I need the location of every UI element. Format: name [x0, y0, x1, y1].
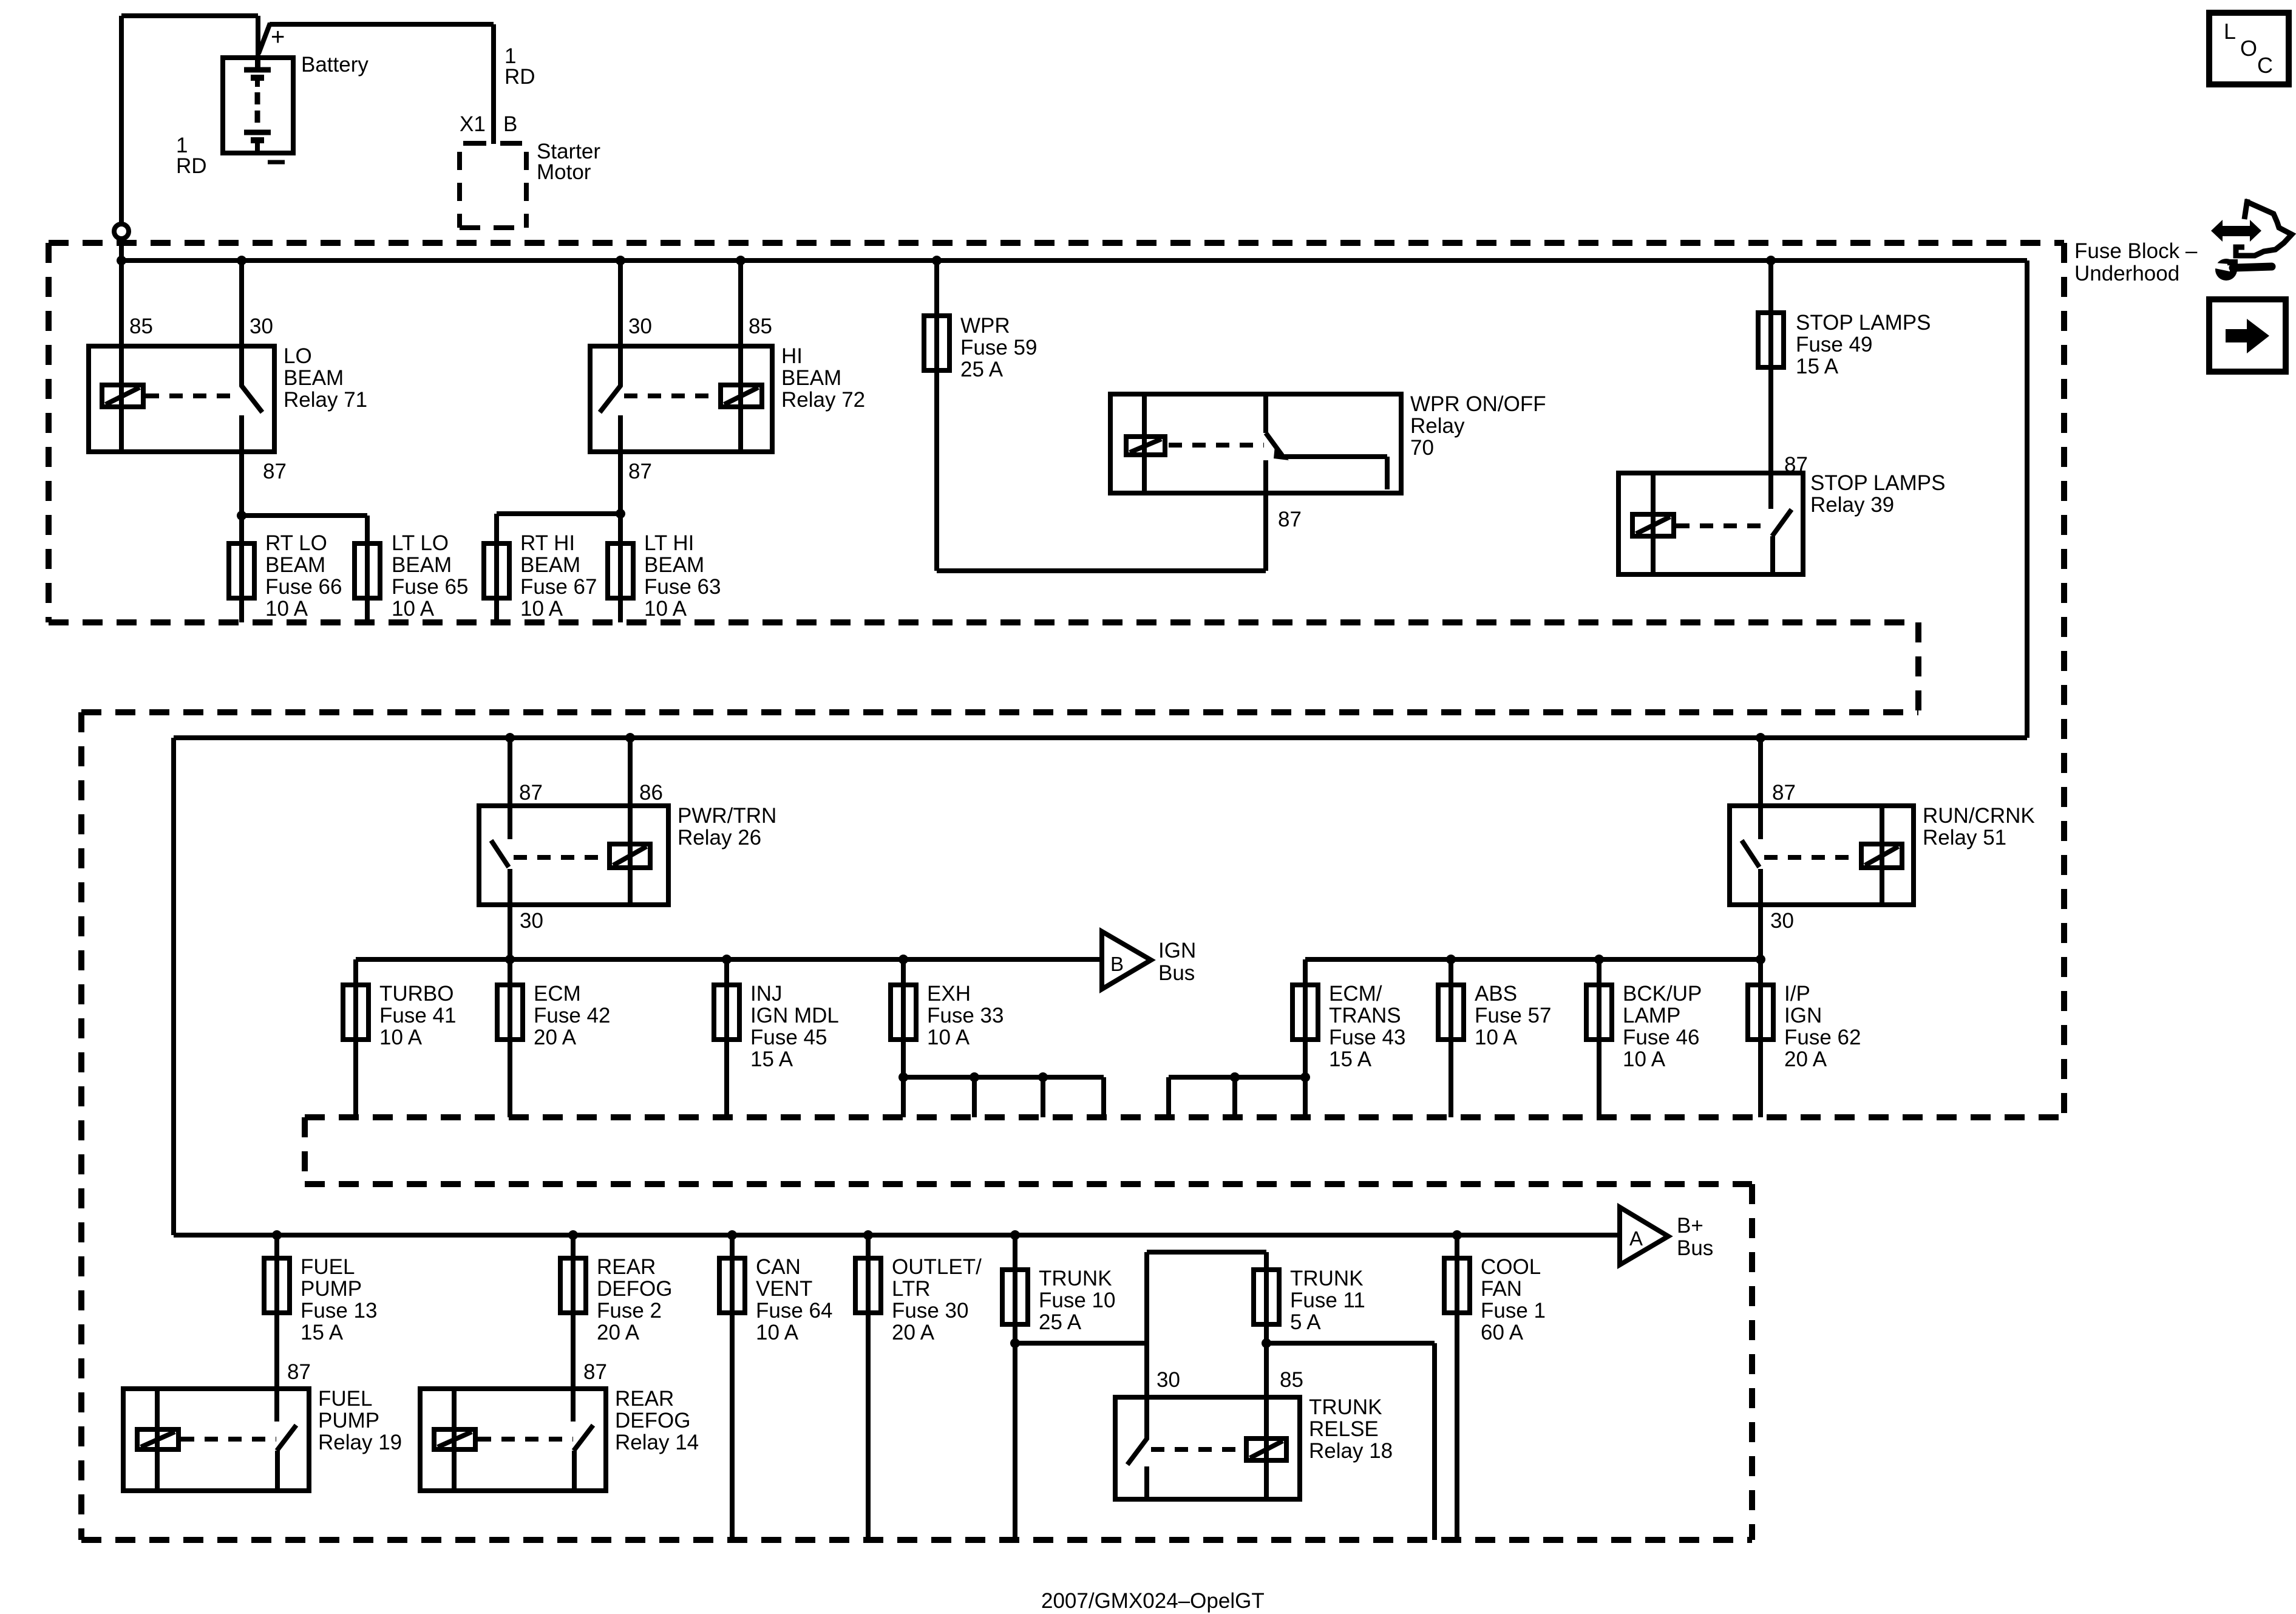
- svg-text:Fuse 30: Fuse 30: [892, 1299, 968, 1323]
- svg-text:60 A: 60 A: [1481, 1321, 1524, 1344]
- svg-text:Fuse 11: Fuse 11: [1290, 1289, 1365, 1312]
- svg-text:10 A: 10 A: [927, 1026, 970, 1049]
- svg-text:OUTLET/: OUTLET/: [892, 1255, 982, 1279]
- wire to fuse45: [724, 959, 729, 985]
- relay K39 STOP LAMPS: [1618, 473, 1803, 574]
- svg-text:Relay 51: Relay 51: [1923, 826, 2006, 850]
- wire bus1 to fuse49: [1768, 260, 1773, 313]
- svg-text:70: 70: [1410, 436, 1434, 460]
- svg-text:PUMP: PUMP: [318, 1409, 379, 1432]
- svg-text:LT LO: LT LO: [392, 531, 449, 555]
- svg-text:Fuse 65: Fuse 65: [392, 575, 468, 599]
- wire fuse33 out: [901, 1040, 906, 1117]
- fuse F41 TURBO: [343, 985, 369, 1040]
- switch blade relay18: [1127, 1438, 1147, 1465]
- wire relay71 87 down: [239, 452, 244, 516]
- svg-text:2007/GMX024–OpelGT: 2007/GMX024–OpelGT: [1041, 1589, 1265, 1613]
- svg-text:10 A: 10 A: [379, 1026, 423, 1049]
- wire to fuse67: [497, 511, 620, 516]
- svg-text:FUEL: FUEL: [318, 1387, 372, 1411]
- wire to fuse1: [1455, 1235, 1459, 1258]
- wire pin30 relay51 inside: [1758, 869, 1763, 905]
- svg-text:C: C: [2257, 53, 2273, 78]
- svg-text:TRUNK: TRUNK: [1039, 1267, 1112, 1290]
- svg-text:REAR: REAR: [615, 1387, 674, 1411]
- relay K71 LO BEAM: [89, 260, 274, 452]
- wire into battery +: [256, 16, 260, 70]
- svg-text:Relay 19: Relay 19: [318, 1431, 402, 1454]
- svg-text:Relay: Relay: [1410, 414, 1465, 438]
- wire to fuse46: [1597, 959, 1601, 985]
- svg-text:IGN: IGN: [1784, 1004, 1822, 1027]
- svg-text:INJ: INJ: [750, 982, 783, 1006]
- junction B+/fuse13: [272, 1230, 282, 1240]
- wire to relay70 87: [937, 568, 1266, 573]
- svg-text:ECM: ECM: [534, 982, 581, 1006]
- fuse F64 CAN VENT: [719, 1258, 745, 1313]
- wire to fuse30: [866, 1235, 871, 1258]
- wire fuse2 to relay14: [571, 1313, 576, 1422]
- svg-text:FUEL: FUEL: [301, 1255, 355, 1279]
- fuse block underhood outline: [49, 243, 2064, 1540]
- svg-text:Fuse 63: Fuse 63: [644, 575, 721, 599]
- svg-text:ABS: ABS: [1475, 982, 1517, 1006]
- wire to fuse41: [353, 959, 358, 985]
- svg-text:Fuse 67: Fuse 67: [520, 575, 597, 599]
- svg-text:Relay 26: Relay 26: [678, 826, 761, 850]
- switch blade relay26: [491, 840, 509, 867]
- svg-text:87: 87: [628, 460, 652, 483]
- svg-text:30: 30: [1770, 909, 1794, 933]
- svg-text:30: 30: [628, 315, 652, 338]
- wire fuse57 out: [1449, 1040, 1453, 1117]
- wire right vertical bus1 to bus2: [2025, 260, 2029, 738]
- svg-text:10 A: 10 A: [1475, 1026, 1518, 1049]
- svg-text:STOP LAMPS: STOP LAMPS: [1810, 471, 1945, 495]
- svg-text:15 A: 15 A: [1329, 1047, 1372, 1071]
- svg-text:DEFOG: DEFOG: [597, 1277, 672, 1301]
- svg-text:Fuse 66: Fuse 66: [265, 575, 342, 599]
- relay K19 FUEL PUMP: [123, 1389, 309, 1491]
- svg-text:Fuse Block –: Fuse Block –: [2074, 239, 2198, 263]
- relay K51 RUN/CRNK: [1730, 806, 1914, 905]
- wire fuse63 out: [618, 598, 623, 622]
- wire bridge vertical / relay18 pin30: [1144, 1252, 1149, 1397]
- wire exh stub 2: [1041, 1077, 1045, 1117]
- svg-text:Motor: Motor: [537, 160, 591, 184]
- svg-text:X1: X1: [460, 112, 486, 136]
- wire fuse46 out: [1597, 1040, 1601, 1117]
- svg-text:COOL: COOL: [1481, 1255, 1541, 1279]
- wire battery to node, top: [121, 13, 258, 18]
- relay K26 PWR/TRN: [479, 806, 668, 905]
- svg-text:B: B: [1110, 953, 1124, 975]
- fuse F57 ABS: [1438, 985, 1464, 1040]
- wire bus1 battery feed: [121, 258, 2027, 263]
- relay K70 WPR ON/OFF: [1110, 394, 1401, 493]
- svg-text:Fuse 10: Fuse 10: [1039, 1289, 1115, 1312]
- svg-text:85: 85: [1280, 1368, 1303, 1392]
- switch blade relay72: [600, 385, 621, 412]
- fuse F42 ECM: [497, 985, 523, 1040]
- switch throw contact relay70: [1283, 454, 1387, 459]
- svg-text:10 A: 10 A: [265, 597, 308, 621]
- coil feed relay51: [1880, 806, 1884, 905]
- wire exh sub-bus: [903, 1075, 1104, 1080]
- switch blade relay14: [574, 1425, 593, 1451]
- wire bridge top: [1147, 1250, 1266, 1255]
- wire common relay39: [1770, 536, 1775, 574]
- wire left vertical bus2 to B+ bus: [171, 738, 176, 1235]
- svg-text:Fuse 43: Fuse 43: [1329, 1026, 1405, 1049]
- switch blade relay51: [1742, 840, 1759, 867]
- svg-text:PUMP: PUMP: [301, 1277, 362, 1301]
- svg-text:BEAM: BEAM: [265, 553, 325, 577]
- svg-text:15 A: 15 A: [301, 1321, 344, 1344]
- wire exh stub 3: [1101, 1077, 1106, 1117]
- junction battery/bus1: [117, 256, 126, 265]
- wire node to fuse-block bus: [119, 240, 124, 260]
- wire fuse45 out: [724, 1040, 729, 1117]
- wire exh stub 1: [972, 1077, 977, 1117]
- svg-text:Fuse 13: Fuse 13: [301, 1299, 377, 1323]
- svg-text:20 A: 20 A: [534, 1026, 577, 1049]
- svg-text:PWR/TRN: PWR/TRN: [678, 804, 776, 828]
- junction fuse11 out: [1262, 1338, 1271, 1348]
- svg-text:LT HI: LT HI: [644, 531, 694, 555]
- wire fuse64 out: [730, 1313, 735, 1540]
- relay K14 REAR DEFOG: [420, 1389, 606, 1491]
- svg-text:TURBO: TURBO: [379, 982, 454, 1006]
- coil feed relay39: [1651, 473, 1656, 574]
- icon vehicle with double arrow and wrench: [2211, 199, 2292, 281]
- svg-text:Fuse 57: Fuse 57: [1475, 1004, 1551, 1027]
- junction ign/fuse57: [1446, 955, 1456, 964]
- svg-text:Relay 14: Relay 14: [615, 1431, 699, 1454]
- switch blade relay39: [1772, 509, 1792, 536]
- wire common relay14: [572, 1451, 577, 1491]
- svg-text:LAMP: LAMP: [1623, 1004, 1680, 1027]
- wire pin85 relay18 inside: [1264, 1397, 1269, 1499]
- svg-text:REAR: REAR: [597, 1255, 656, 1279]
- wire B+ bus: [174, 1233, 1618, 1238]
- junction bus1/relay72 pin30: [616, 256, 625, 265]
- svg-text:10 A: 10 A: [756, 1321, 799, 1344]
- svg-text:5 A: 5 A: [1290, 1310, 1321, 1334]
- svg-text:87: 87: [1278, 508, 1302, 531]
- svg-text:BEAM: BEAM: [392, 553, 452, 577]
- wire fuse66 out: [239, 598, 244, 622]
- junction ign/fuse42: [505, 955, 515, 964]
- wire to fuse57: [1449, 959, 1453, 985]
- coil feed relay14: [452, 1389, 457, 1491]
- fuse F62 I/P IGN: [1748, 985, 1773, 1040]
- fuse F10 TRUNK: [1002, 1270, 1028, 1324]
- wire relay70 87 up: [1263, 493, 1268, 571]
- junction ign/fuse33: [898, 955, 908, 964]
- wire common relay18: [1144, 1466, 1149, 1499]
- svg-text:Fuse 42: Fuse 42: [534, 1004, 610, 1027]
- svg-text:RUN/CRNK: RUN/CRNK: [1923, 804, 2035, 828]
- wire relay72 87 down: [618, 452, 623, 514]
- junction ign/fuse62: [1756, 955, 1765, 964]
- junction bus1/relay72 pin85: [736, 256, 746, 265]
- svg-text:85: 85: [749, 315, 772, 338]
- wire pin 30 relay72: [618, 260, 623, 386]
- fuse F1 COOL FAN: [1444, 1258, 1470, 1313]
- fuse F49 STOP LAMPS: [1758, 313, 1784, 367]
- wire pin 85 relay72: [738, 260, 743, 452]
- svg-text:TRUNK: TRUNK: [1290, 1267, 1364, 1290]
- fuse F30 OUTLET/LTR: [855, 1258, 881, 1313]
- wire to fuse42: [508, 959, 512, 985]
- wire fuse59 down: [934, 370, 939, 571]
- wire fuse10 down: [1013, 1343, 1017, 1540]
- wire to fuse64: [730, 1235, 735, 1258]
- svg-text:30: 30: [250, 315, 273, 338]
- wire to fuse65: [242, 513, 367, 518]
- wire fuse11 down: [1432, 1343, 1437, 1540]
- junction fuse10 out: [1010, 1338, 1020, 1348]
- svg-text:TRUNK: TRUNK: [1309, 1395, 1382, 1419]
- wire pin 87 relay72 inside: [618, 415, 623, 452]
- wire to fuse62: [1758, 959, 1763, 985]
- svg-text:A: A: [1629, 1227, 1643, 1250]
- wire diagonal at battery +: [259, 23, 270, 53]
- node: battery splice: [114, 224, 129, 239]
- wire fuse10 out: [1013, 1324, 1017, 1343]
- junction bus1/fuse59: [932, 256, 942, 265]
- wire pin 87 relay26: [508, 738, 512, 839]
- svg-text:20 A: 20 A: [1784, 1047, 1827, 1071]
- junction B+/fuse64: [727, 1230, 737, 1240]
- fuse F13 FUEL PUMP: [264, 1258, 290, 1313]
- svg-text:WPR ON/OFF: WPR ON/OFF: [1410, 392, 1546, 416]
- fuse F63 LT HI BEAM: [608, 543, 633, 598]
- fuse F33 EXH: [891, 985, 916, 1040]
- wire pin 30 relay71: [239, 260, 244, 386]
- wire pin 87 relay39: [1768, 473, 1773, 509]
- svg-text:87: 87: [263, 460, 287, 483]
- wire fuse62 out: [1758, 1040, 1763, 1117]
- junction relay72 87 node: [616, 509, 625, 519]
- wire fuse49 to relay39: [1768, 367, 1773, 473]
- wire fuse1 out: [1455, 1313, 1459, 1540]
- svg-text:Bus: Bus: [1677, 1236, 1713, 1260]
- svg-text:Bus: Bus: [1158, 961, 1195, 985]
- svg-text:RELSE: RELSE: [1309, 1417, 1379, 1441]
- svg-text:Battery: Battery: [301, 53, 369, 77]
- fuse F59 WPR: [924, 316, 949, 370]
- junction ign/fuse46: [1594, 955, 1604, 964]
- svg-text:Fuse 1: Fuse 1: [1481, 1299, 1546, 1323]
- svg-text:BEAM: BEAM: [781, 366, 841, 390]
- wire ecm-trans stub 2: [1232, 1077, 1237, 1117]
- relay K72 HI BEAM: [590, 260, 772, 452]
- fuse F46 BCK/UP LAMP: [1586, 985, 1612, 1040]
- wire pin30 relay26 inside: [508, 869, 512, 905]
- wire fuse41 out: [353, 1040, 358, 1117]
- junction ign/fuse45: [722, 955, 732, 964]
- wire to fuse43: [1303, 959, 1308, 985]
- wire relay26 30 down: [508, 905, 512, 959]
- fuse F11 TRUNK: [1254, 1270, 1279, 1324]
- svg-text:87: 87: [287, 1360, 311, 1384]
- svg-text:WPR: WPR: [960, 314, 1010, 338]
- icon LOC box: [2209, 13, 2289, 84]
- starter motor: [460, 143, 526, 228]
- junction B+/fuse2: [568, 1230, 578, 1240]
- junction bus2/relay51 87: [1756, 733, 1765, 743]
- svg-text:Fuse 64: Fuse 64: [756, 1299, 832, 1323]
- wire pin 87 relay71 inside: [239, 415, 244, 452]
- wire fuse67 out: [494, 598, 499, 622]
- svg-text:30: 30: [1156, 1368, 1180, 1392]
- wire 1 RD right vertical: [491, 24, 496, 144]
- wire relay51 30 down: [1758, 905, 1763, 959]
- wire to fuse13: [274, 1235, 279, 1258]
- wire fuse11 right: [1266, 1341, 1435, 1346]
- svg-text:BEAM: BEAM: [284, 366, 344, 390]
- junction bus1/relay71 pin30: [237, 256, 246, 265]
- svg-text:Fuse 41: Fuse 41: [379, 1004, 456, 1027]
- svg-text:IGN MDL: IGN MDL: [750, 1004, 839, 1027]
- svg-text:10 A: 10 A: [1623, 1047, 1666, 1071]
- junction bus2/relay26 86: [625, 733, 635, 743]
- svg-text:15 A: 15 A: [750, 1047, 793, 1071]
- wire ecm-trans sub-bus: [1169, 1075, 1305, 1080]
- fuse F66 RT LO BEAM: [229, 543, 254, 598]
- fuse F67 RT HI BEAM: [484, 543, 509, 598]
- svg-text:VENT: VENT: [756, 1277, 812, 1301]
- svg-text:86: 86: [639, 781, 663, 805]
- svg-text:Relay 39: Relay 39: [1810, 493, 1894, 517]
- svg-text:Fuse 33: Fuse 33: [927, 1004, 1004, 1027]
- svg-text:TRANS: TRANS: [1329, 1004, 1401, 1027]
- svg-text:+: +: [271, 24, 285, 50]
- svg-text:87: 87: [583, 1360, 607, 1384]
- battery minus sign: [268, 160, 285, 165]
- svg-text:I/P: I/P: [1784, 982, 1810, 1006]
- svg-text:ECM/: ECM/: [1329, 982, 1382, 1006]
- wire pin switch relay70: [1263, 394, 1268, 433]
- svg-text:DEFOG: DEFOG: [615, 1409, 690, 1432]
- wire ign bus left: [356, 957, 1102, 962]
- coil feed relay70: [1142, 394, 1147, 493]
- wire fuse65 out: [365, 598, 370, 622]
- wire fuse30 out: [866, 1313, 871, 1540]
- svg-text:L: L: [2224, 19, 2236, 44]
- junction bus1/fuse49: [1766, 256, 1776, 265]
- wire 1 RD left vertical: [119, 16, 124, 222]
- wire fuse11 out / relay18 pin85: [1264, 1324, 1269, 1397]
- wire to fuse33: [901, 959, 906, 985]
- svg-text:Fuse 2: Fuse 2: [597, 1299, 662, 1323]
- svg-text:RD: RD: [504, 65, 535, 89]
- wire ign bus right: [1305, 957, 1761, 962]
- svg-text:HI: HI: [781, 344, 803, 368]
- wire fuse43 out: [1303, 1040, 1308, 1117]
- svg-text:Relay 71: Relay 71: [284, 388, 367, 412]
- switch blade relay70: [1266, 433, 1282, 455]
- svg-text:20 A: 20 A: [597, 1321, 640, 1344]
- svg-text:BCK/UP: BCK/UP: [1623, 982, 1702, 1006]
- svg-text:Fuse 62: Fuse 62: [1784, 1026, 1861, 1049]
- wire pin 87 relay51: [1758, 738, 1763, 839]
- svg-text:B+: B+: [1677, 1214, 1703, 1238]
- wire common relay19: [275, 1451, 280, 1491]
- wire pin 85 relay71: [119, 260, 124, 452]
- svg-text:30: 30: [520, 909, 543, 933]
- relay K18 TRUNK RELSE: [1115, 1397, 1300, 1499]
- wire battery + to starter B: [270, 22, 494, 27]
- svg-text:RD: RD: [176, 154, 207, 178]
- wire fuse10 to bridge: [1015, 1341, 1147, 1346]
- svg-text:Fuse 59: Fuse 59: [960, 336, 1037, 359]
- fuse F43 ECM/TRANS: [1292, 985, 1318, 1040]
- connector B IGN Bus: [1102, 931, 1151, 989]
- svg-text:FAN: FAN: [1481, 1277, 1522, 1301]
- wire common relay70: [1263, 460, 1268, 493]
- svg-text:LO: LO: [284, 344, 312, 368]
- svg-text:Relay 72: Relay 72: [781, 388, 865, 412]
- svg-text:10 A: 10 A: [392, 597, 435, 621]
- svg-text:BEAM: BEAM: [644, 553, 704, 577]
- junction bus2/relay26 87: [505, 733, 515, 743]
- wire bridge to fuse11: [1264, 1252, 1269, 1270]
- svg-text:B: B: [503, 112, 517, 136]
- junction relay71 87 node: [237, 511, 246, 520]
- wire fuse13 to relay19: [274, 1313, 279, 1422]
- svg-text:25 A: 25 A: [1039, 1310, 1082, 1334]
- svg-text:10 A: 10 A: [644, 597, 687, 621]
- wire fuse42 out: [508, 1040, 512, 1117]
- svg-text:CAN: CAN: [756, 1255, 801, 1279]
- wire pin 86 relay26: [628, 738, 633, 905]
- battery: [223, 58, 293, 153]
- junction B+/fuse1: [1452, 1230, 1462, 1240]
- svg-text:10 A: 10 A: [520, 597, 563, 621]
- svg-text:15 A: 15 A: [1796, 355, 1839, 378]
- connector A B+ Bus: [1620, 1207, 1668, 1265]
- svg-text:87: 87: [519, 781, 543, 805]
- svg-text:O: O: [2240, 36, 2257, 61]
- wire bus1 to fuse59: [934, 260, 939, 316]
- switch blade relay19: [277, 1425, 296, 1451]
- fuse F65 LT LO BEAM: [355, 543, 380, 598]
- svg-text:RT LO: RT LO: [265, 531, 327, 555]
- coil feed relay19: [155, 1389, 160, 1491]
- wire to fuse10: [1013, 1235, 1017, 1270]
- svg-text:Underhood: Underhood: [2074, 262, 2179, 285]
- svg-text:EXH: EXH: [927, 982, 971, 1006]
- svg-text:25 A: 25 A: [960, 358, 1004, 381]
- fuse F2 REAR DEFOG: [560, 1258, 586, 1313]
- svg-text:STOP LAMPS: STOP LAMPS: [1796, 311, 1931, 335]
- svg-text:Fuse 49: Fuse 49: [1796, 333, 1872, 356]
- svg-text:Fuse 45: Fuse 45: [750, 1026, 827, 1049]
- svg-text:Fuse 46: Fuse 46: [1623, 1026, 1699, 1049]
- svg-text:RT HI: RT HI: [520, 531, 575, 555]
- svg-text:85: 85: [129, 315, 153, 338]
- switch blade relay71: [241, 385, 262, 412]
- svg-text:87: 87: [1772, 781, 1796, 805]
- wire bus2: [174, 735, 2027, 740]
- icon arrow box: [2209, 299, 2286, 372]
- svg-text:BEAM: BEAM: [520, 553, 580, 577]
- wire ecm-trans stub 1: [1166, 1077, 1171, 1117]
- wire to fuse2: [571, 1235, 576, 1258]
